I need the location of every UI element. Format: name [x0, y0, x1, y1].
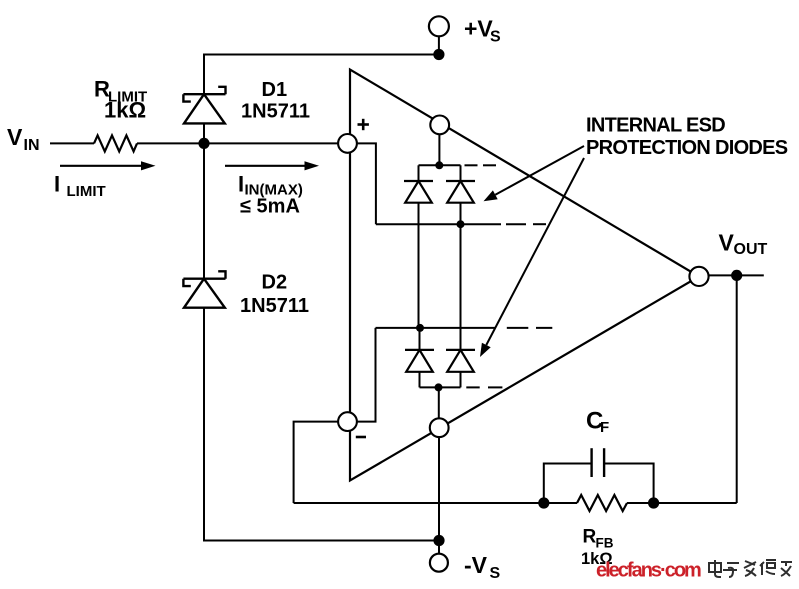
wire junction A down to D2 cathode: [203, 143, 205, 278]
label VOUT: [719, 230, 768, 259]
label -VS: [464, 552, 501, 582]
svg-text:V: V: [7, 124, 23, 150]
label ESD note: [586, 115, 788, 160]
label D2 1N5711: [240, 272, 309, 318]
op-amp minus sign: [356, 436, 366, 439]
junction ESD mid: [457, 220, 465, 228]
op-amp U1 triangle: [350, 70, 699, 481]
junction ESD top: [435, 161, 443, 169]
label +VS: [464, 16, 501, 46]
wire feedback riser from inverting input: [294, 422, 339, 503]
op-amp bottom supply circle: [430, 418, 449, 437]
ESD upper tie bar: [419, 164, 461, 166]
label D1 1N5711: [241, 79, 310, 123]
svg-text:D1: D1: [262, 79, 288, 101]
label IINMAX 5mA: [238, 172, 303, 218]
svg-text:D2: D2: [262, 272, 288, 294]
ESD mid bar: [376, 223, 501, 225]
resistor R1 RLIMIT: [94, 135, 137, 151]
svg-text:OUT: OUT: [734, 241, 768, 258]
arrow ILIMIT: [60, 161, 156, 170]
diode ESD D6 lower-right: [446, 350, 475, 388]
junction ESD bottom: [435, 383, 443, 391]
svg-text:FB: FB: [596, 536, 614, 551]
junction +VS rail: [433, 49, 444, 60]
junction VOUT: [731, 270, 742, 281]
leader arrow 2 to lower ESD pair: [480, 158, 584, 357]
wire ESD bottom to op-amp bottom supply: [438, 387, 440, 427]
diode D2 schottky: [183, 271, 225, 307]
dashed net upper: [465, 164, 497, 166]
svg-text:V: V: [719, 230, 735, 256]
wire op-amp top supply to ESD top: [438, 125, 440, 165]
wire output: [709, 274, 764, 276]
dashed net mid: [506, 223, 546, 225]
svg-text:R: R: [583, 527, 597, 548]
op-amp top supply circle: [430, 116, 449, 135]
svg-text:1N5711: 1N5711: [240, 295, 309, 317]
label ILIMIT: [54, 172, 106, 201]
dashed net bottom: [466, 386, 502, 388]
svg-text:INTERNAL ESD: INTERNAL ESD: [586, 115, 725, 137]
ESD lower tie bar: [376, 327, 496, 329]
wire bottom supply down to -VS node: [438, 437, 440, 554]
ESD bottom tie bar: [420, 386, 461, 388]
wire junction A up to D1 anode: [203, 123, 205, 143]
junction ESD lower: [416, 324, 424, 332]
wire feedback bottom left: [294, 502, 577, 504]
terminal -VS: [430, 554, 448, 572]
svg-text:I: I: [54, 172, 60, 197]
op-amp noninverting input circle: [338, 134, 357, 153]
wire inverting input to ESD lower bar: [357, 328, 376, 422]
wire feedback bottom right: [627, 502, 737, 504]
wire ESD D4 anode to lower-right diode: [460, 224, 462, 350]
diode ESD D5 lower-left: [405, 328, 434, 388]
node VIN label: [7, 124, 40, 154]
wire D2 anode to -VS rail: [204, 308, 439, 541]
label RFB value 1k: [581, 527, 614, 569]
wire ESD D3 anode down: [418, 203, 420, 328]
svg-text:PROTECTION DIODES: PROTECTION DIODES: [586, 137, 788, 159]
label RLIMIT value 1k: [94, 77, 147, 123]
svg-text:LIMIT: LIMIT: [67, 183, 106, 200]
svg-text:S: S: [490, 29, 501, 46]
leader arrow 1 to upper ESD pair: [484, 146, 585, 201]
arrow IINMAX: [225, 161, 319, 170]
resistor R2 RFB: [577, 495, 627, 511]
junction FB left: [538, 497, 549, 508]
wire input VIN to R: [50, 142, 94, 144]
diode D1 schottky: [183, 87, 225, 124]
svg-text:S: S: [490, 565, 501, 582]
wire ESD D4 anode down: [460, 203, 462, 225]
svg-text:≤ 5mA: ≤ 5mA: [240, 196, 300, 218]
dashed net lower: [507, 327, 553, 329]
svg-text:elecfans·com: elecfans·com: [596, 560, 701, 582]
svg-text:-V: -V: [464, 552, 488, 578]
op-amp output circle: [689, 267, 708, 286]
capacitor CF: [544, 448, 654, 503]
wire +VS stub: [438, 37, 440, 55]
svg-text:1N5711: 1N5711: [241, 101, 310, 123]
diode ESD D3 upper-left: [404, 165, 433, 202]
svg-text:F: F: [600, 419, 609, 436]
svg-text:I: I: [238, 172, 244, 197]
diode ESD D4 upper-right: [446, 165, 475, 202]
svg-text:1kΩ: 1kΩ: [104, 98, 146, 123]
svg-text:IN: IN: [24, 137, 40, 154]
wire D1 cathode to top rail: [204, 55, 439, 95]
op-amp plus sign: [358, 119, 369, 130]
wire VOUT down to feedback: [736, 275, 738, 503]
wire R to junction A: [137, 142, 338, 144]
junction FB right: [648, 497, 659, 508]
label CF: [586, 408, 609, 437]
junction -VS rail: [433, 535, 444, 546]
junction A input node: [198, 138, 209, 149]
watermark chinese brand: [709, 560, 792, 577]
op-amp inverting input circle: [338, 412, 357, 431]
wire noninverting input to ESD mid bar: [357, 143, 376, 224]
terminal +VS: [429, 16, 449, 36]
